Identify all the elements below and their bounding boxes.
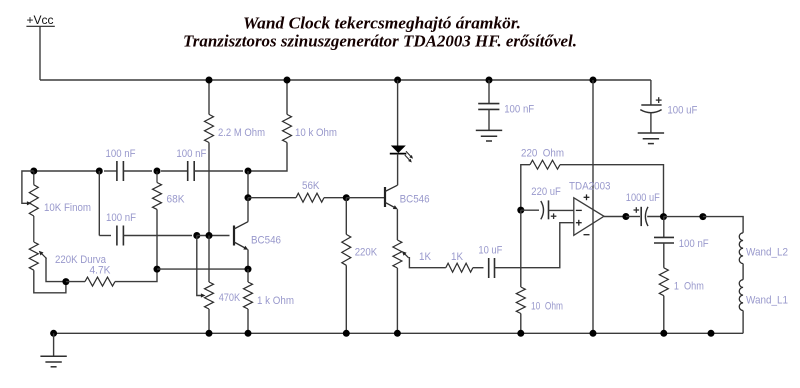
wire 220uF to minus input	[549, 209, 574, 211]
potentiometer 1K	[393, 240, 402, 268]
potentiometer 220K Durva	[29, 242, 38, 270]
wire Q2 emitter lead	[396, 209, 398, 240]
wire 1K to 10uF	[473, 267, 484, 269]
transistor Q2 BC546	[384, 187, 386, 207]
svg-text:1 Ohm: 1 Ohm	[674, 281, 704, 293]
wire 1K pot wiper	[404, 253, 409, 258]
resistor 1 k Ohm	[247, 269, 249, 282]
svg-text:Wand_L2: Wand_L2	[746, 247, 788, 259]
svg-text:2.2 M Ohm: 2.2 M Ohm	[218, 127, 265, 139]
wire 68K bottom lead	[156, 209, 158, 269]
svg-text:4.7K: 4.7K	[90, 265, 112, 277]
inductor Wand_L2	[739, 233, 743, 264]
wire LED anode lead	[397, 80, 399, 146]
node bus dot 100nF	[486, 77, 493, 84]
svg-text:220 Ohm: 220 Ohm	[521, 148, 564, 160]
wire 2.2M top lead	[208, 80, 210, 114]
node bus dot 1k	[245, 330, 252, 337]
svg-text:1K: 1K	[419, 251, 432, 263]
wire 56K right lead	[324, 197, 346, 199]
svg-text:Tranzisztoros szinuszgenerátor: Tranzisztoros szinuszgenerátor TDA2003 H…	[183, 32, 577, 51]
node bus gnd dot	[50, 330, 57, 337]
capacitor 100 nF first	[104, 170, 117, 172]
node bus dot 220K	[343, 330, 350, 337]
node cap row dot C	[154, 168, 161, 175]
LED diode	[391, 146, 406, 154]
wire emitter row	[157, 268, 248, 270]
wire Q1 collector lead	[247, 198, 249, 222]
wire 1K pot bottom lead	[396, 268, 398, 333]
op-amp U1 TDA2003	[574, 198, 604, 236]
potentiometer 10K Finom	[33, 171, 35, 185]
wire riser x99	[98, 171, 100, 236]
capacitor 100 nF decoupling	[488, 80, 490, 104]
svg-text:100 nF: 100 nF	[504, 104, 534, 116]
node bus dot pot1K	[394, 330, 401, 337]
node coil top dot	[699, 213, 706, 220]
svg-text:100 uF: 100 uF	[667, 105, 697, 117]
wire Vcc drop	[39, 26, 41, 80]
wire 100nF to ground	[488, 109, 490, 130]
wire 4.7K to emitter row riser	[115, 269, 157, 282]
svg-text:BC546: BC546	[400, 194, 430, 206]
svg-text:1K: 1K	[451, 251, 464, 263]
node base row dot F	[206, 232, 213, 239]
node left row dot A	[30, 168, 37, 175]
svg-text:100 nF: 100 nF	[679, 238, 709, 250]
node Q1 emitter dot	[245, 266, 252, 273]
resistor 1K series	[446, 263, 473, 272]
svg-text:+Vcc: +Vcc	[27, 13, 54, 27]
svg-text:10 Ohm: 10 Ohm	[531, 301, 563, 313]
svg-text:BC546: BC546	[251, 235, 281, 247]
wire feedback left riser	[521, 165, 530, 210]
node bus dot coils	[708, 330, 715, 337]
resistor 1 Ohm	[663, 243, 665, 268]
wire 220K bottom lead	[345, 265, 347, 333]
capacitor 100 nF zobel	[663, 217, 665, 238]
node Y output dot	[660, 213, 667, 220]
svg-text:1 k Ohm: 1 k Ohm	[257, 295, 294, 307]
inductor Wand_L1	[739, 280, 743, 311]
wire 4.7K left lead	[66, 281, 85, 283]
wire left row	[34, 170, 100, 172]
wire 10k bottom L to node	[248, 143, 287, 172]
capacitor 10 uF	[488, 258, 490, 278]
resistor 68K	[156, 171, 158, 183]
wire output row right	[664, 216, 703, 218]
node bus dot TDA supply	[590, 77, 597, 84]
svg-text:Wand Clock tekercsmeghajtó ára: Wand Clock tekercsmeghajtó áramkör.	[243, 14, 521, 33]
wire 1k bottom lead	[247, 309, 249, 333]
svg-text:10 uF: 10 uF	[478, 245, 502, 257]
svg-text:1000 uF: 1000 uF	[626, 192, 660, 204]
wire to coils	[703, 217, 743, 233]
wire Q1 emitter lead	[247, 250, 249, 270]
wire LED cathode to Q2 collector	[397, 154, 399, 186]
svg-text:100 nF: 100 nF	[106, 212, 136, 224]
wire collector riser x248	[247, 171, 249, 198]
wire 100uF to ground	[650, 113, 652, 133]
node 220K top dot	[343, 194, 350, 201]
wire 10k top lead	[286, 80, 288, 114]
wire top supply bus	[40, 79, 651, 81]
resistor 4.7K	[85, 277, 115, 286]
node cap row dot B	[96, 168, 103, 175]
node bus dot 10Ohm	[517, 330, 524, 337]
svg-text:Wand_L1: Wand_L1	[746, 295, 788, 307]
wire base lead Q2	[346, 197, 385, 199]
wire 470K wiper drop	[197, 236, 202, 296]
node bus dot TDA gnd	[590, 330, 597, 337]
node 56K left dot	[245, 194, 252, 201]
svg-text:220K: 220K	[355, 247, 378, 259]
wire TDA2003 supply pin	[592, 80, 594, 333]
wire 10K Finom wiper bracket	[22, 171, 34, 203]
node bus dot 2.2M	[206, 77, 213, 84]
svg-text:100 nF: 100 nF	[176, 148, 206, 160]
svg-text:10K Finom: 10K Finom	[44, 202, 91, 214]
wire 220K Durva bottom loop	[34, 270, 66, 293]
svg-text:56K: 56K	[302, 180, 320, 192]
svg-text:470K: 470K	[219, 292, 241, 304]
resistor 10 k Ohm	[283, 114, 292, 142]
svg-text:220 uF: 220 uF	[531, 186, 561, 198]
wire 470K bottom lead	[208, 309, 210, 333]
wire bottom ground bus	[54, 332, 744, 334]
transistor Q1 BC546	[233, 226, 235, 246]
resistor 220K	[345, 198, 347, 235]
ground main symbol	[53, 333, 55, 356]
svg-text:100 nF: 100 nF	[106, 148, 136, 160]
wire base row segment	[197, 235, 230, 237]
resistor 10 Ohm	[520, 210, 522, 287]
capacitor 100 uF supply	[650, 80, 652, 105]
node bus dot 470K	[206, 330, 213, 337]
node output dot	[622, 213, 629, 220]
node emitter row left dot	[154, 266, 161, 273]
node bus dot LED	[394, 77, 401, 84]
node wiper junction	[62, 278, 69, 285]
wire between coils	[742, 264, 744, 280]
wire feedback top to output node	[560, 165, 664, 217]
svg-text:68K: 68K	[167, 194, 186, 206]
node cap row dot D	[245, 168, 252, 175]
wire output lead	[604, 216, 626, 218]
capacitor 1000 uF	[634, 209, 640, 211]
capacitor 100 nF lower	[99, 235, 111, 237]
wire coil bottom to bus	[742, 311, 744, 334]
wire 220K Durva wiper	[46, 258, 66, 282]
svg-text:10 k Ohm: 10 k Ohm	[295, 127, 337, 139]
ground supply cap	[638, 132, 664, 134]
wire 10uF to plus input	[495, 223, 574, 268]
capacitor 100 nF second	[161, 170, 188, 172]
ground decoupling	[476, 129, 502, 131]
resistor 56K	[296, 193, 324, 202]
potentiometer 470K	[208, 236, 210, 283]
node bus dot 1Ohm	[660, 330, 667, 337]
node base row dot E	[193, 232, 200, 239]
wire 56K left lead	[248, 197, 296, 199]
resistor 2.2 M Ohm	[205, 114, 214, 142]
wire 10 Ohm bottom lead	[520, 314, 522, 334]
node bus dot 10k	[284, 77, 291, 84]
wire pot join	[33, 216, 35, 242]
resistor 220 Ohm feedback	[530, 160, 560, 169]
node X feedback dot	[517, 207, 524, 214]
wire 2.2M bottom to base node	[208, 143, 210, 236]
svg-text:TDA2003: TDA2003	[569, 181, 611, 193]
wire 1 Ohm bottom lead	[663, 296, 665, 334]
capacitor 220 uF	[521, 209, 539, 211]
